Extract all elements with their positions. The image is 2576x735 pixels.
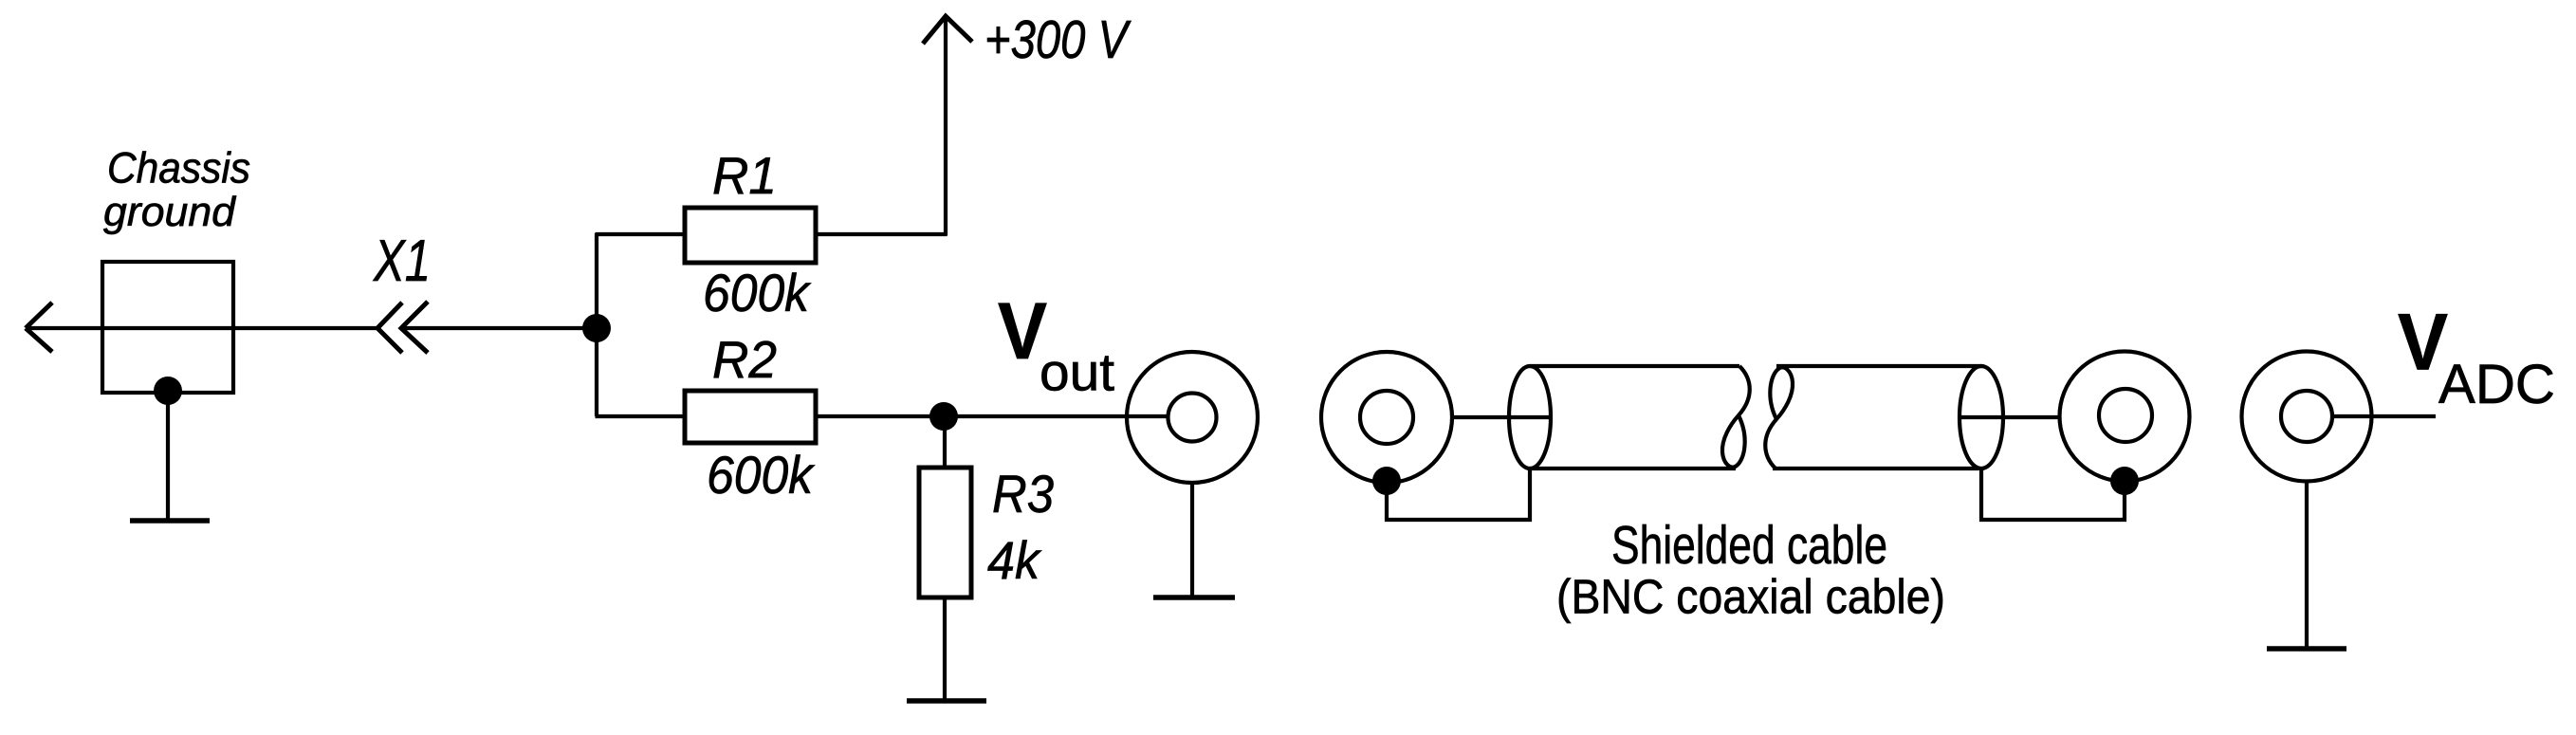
wire BNC J4 to VADC <box>2332 414 2436 418</box>
chassis ground box <box>102 262 233 393</box>
wire bus to R1 <box>596 232 686 236</box>
wire Vout dot to R3 <box>943 416 947 468</box>
svg-text:ground: ground <box>103 189 237 235</box>
cable shield cylinder 1 <box>1509 366 1750 469</box>
wire below R3 <box>943 597 947 699</box>
connector BNC J1 <box>1127 352 1258 483</box>
wire BNC J2 shield to cable <box>1387 469 1530 520</box>
svg-text:+300 V: +300 V <box>984 9 1132 70</box>
node Vout junction dot <box>929 402 958 431</box>
resistor R3 <box>919 468 971 597</box>
cable shield cylinder 2 <box>1765 366 2003 469</box>
svg-text:600k: 600k <box>707 445 816 505</box>
svg-text:Shielded cable: Shielded cable <box>1611 515 1887 576</box>
svg-text:600k: 600k <box>703 263 812 322</box>
wire R2 to BNC J1 <box>816 414 1169 418</box>
wire BNC J3 shield to cable <box>1981 469 2125 520</box>
wire vertical bus <box>595 233 598 416</box>
ground chassis <box>130 518 210 524</box>
svg-text:4k: 4k <box>987 530 1042 590</box>
wire X1 to junction <box>401 326 597 330</box>
connector BNC J3 <box>2060 352 2190 482</box>
wire BNC J2 center to cable <box>1452 415 1550 419</box>
node junction dot <box>582 314 611 342</box>
resistor R1 <box>685 208 816 263</box>
svg-text:R1: R1 <box>712 146 777 205</box>
svg-text:R2: R2 <box>712 330 777 389</box>
resistor R2 <box>685 391 816 443</box>
connector X1 chevrons <box>377 302 428 353</box>
node BNC J2 shield dot <box>1372 467 1401 495</box>
ground BNC J4 <box>2267 646 2346 652</box>
ground below R3 <box>907 698 986 704</box>
ground BNC J1 <box>1153 595 1235 600</box>
svg-text:out: out <box>1040 342 1114 402</box>
svg-text:ADC: ADC <box>2438 354 2555 415</box>
connector BNC J2 <box>1321 352 1452 483</box>
wire main horizontal left segment with arrow <box>26 303 377 352</box>
node BNC J3 shield dot <box>2110 467 2139 495</box>
wire below BNC J4 <box>2305 482 2309 649</box>
svg-text:X1: X1 <box>372 229 431 294</box>
wire chassis dot down <box>166 391 170 519</box>
wire below BNC J1 <box>1190 483 1194 596</box>
wire bus to R2 <box>596 414 686 418</box>
wire cable to BNC J3 <box>1960 415 2060 419</box>
node chassis junction dot <box>154 377 182 405</box>
connector BNC J4 <box>2242 352 2372 482</box>
svg-text:Chassis: Chassis <box>107 144 250 193</box>
svg-text:R3: R3 <box>992 464 1054 524</box>
svg-text:(BNC coaxial cable): (BNC coaxial cable) <box>1556 570 1945 624</box>
power +300 V arrow <box>923 16 972 236</box>
wire R1 to riser <box>816 232 948 236</box>
